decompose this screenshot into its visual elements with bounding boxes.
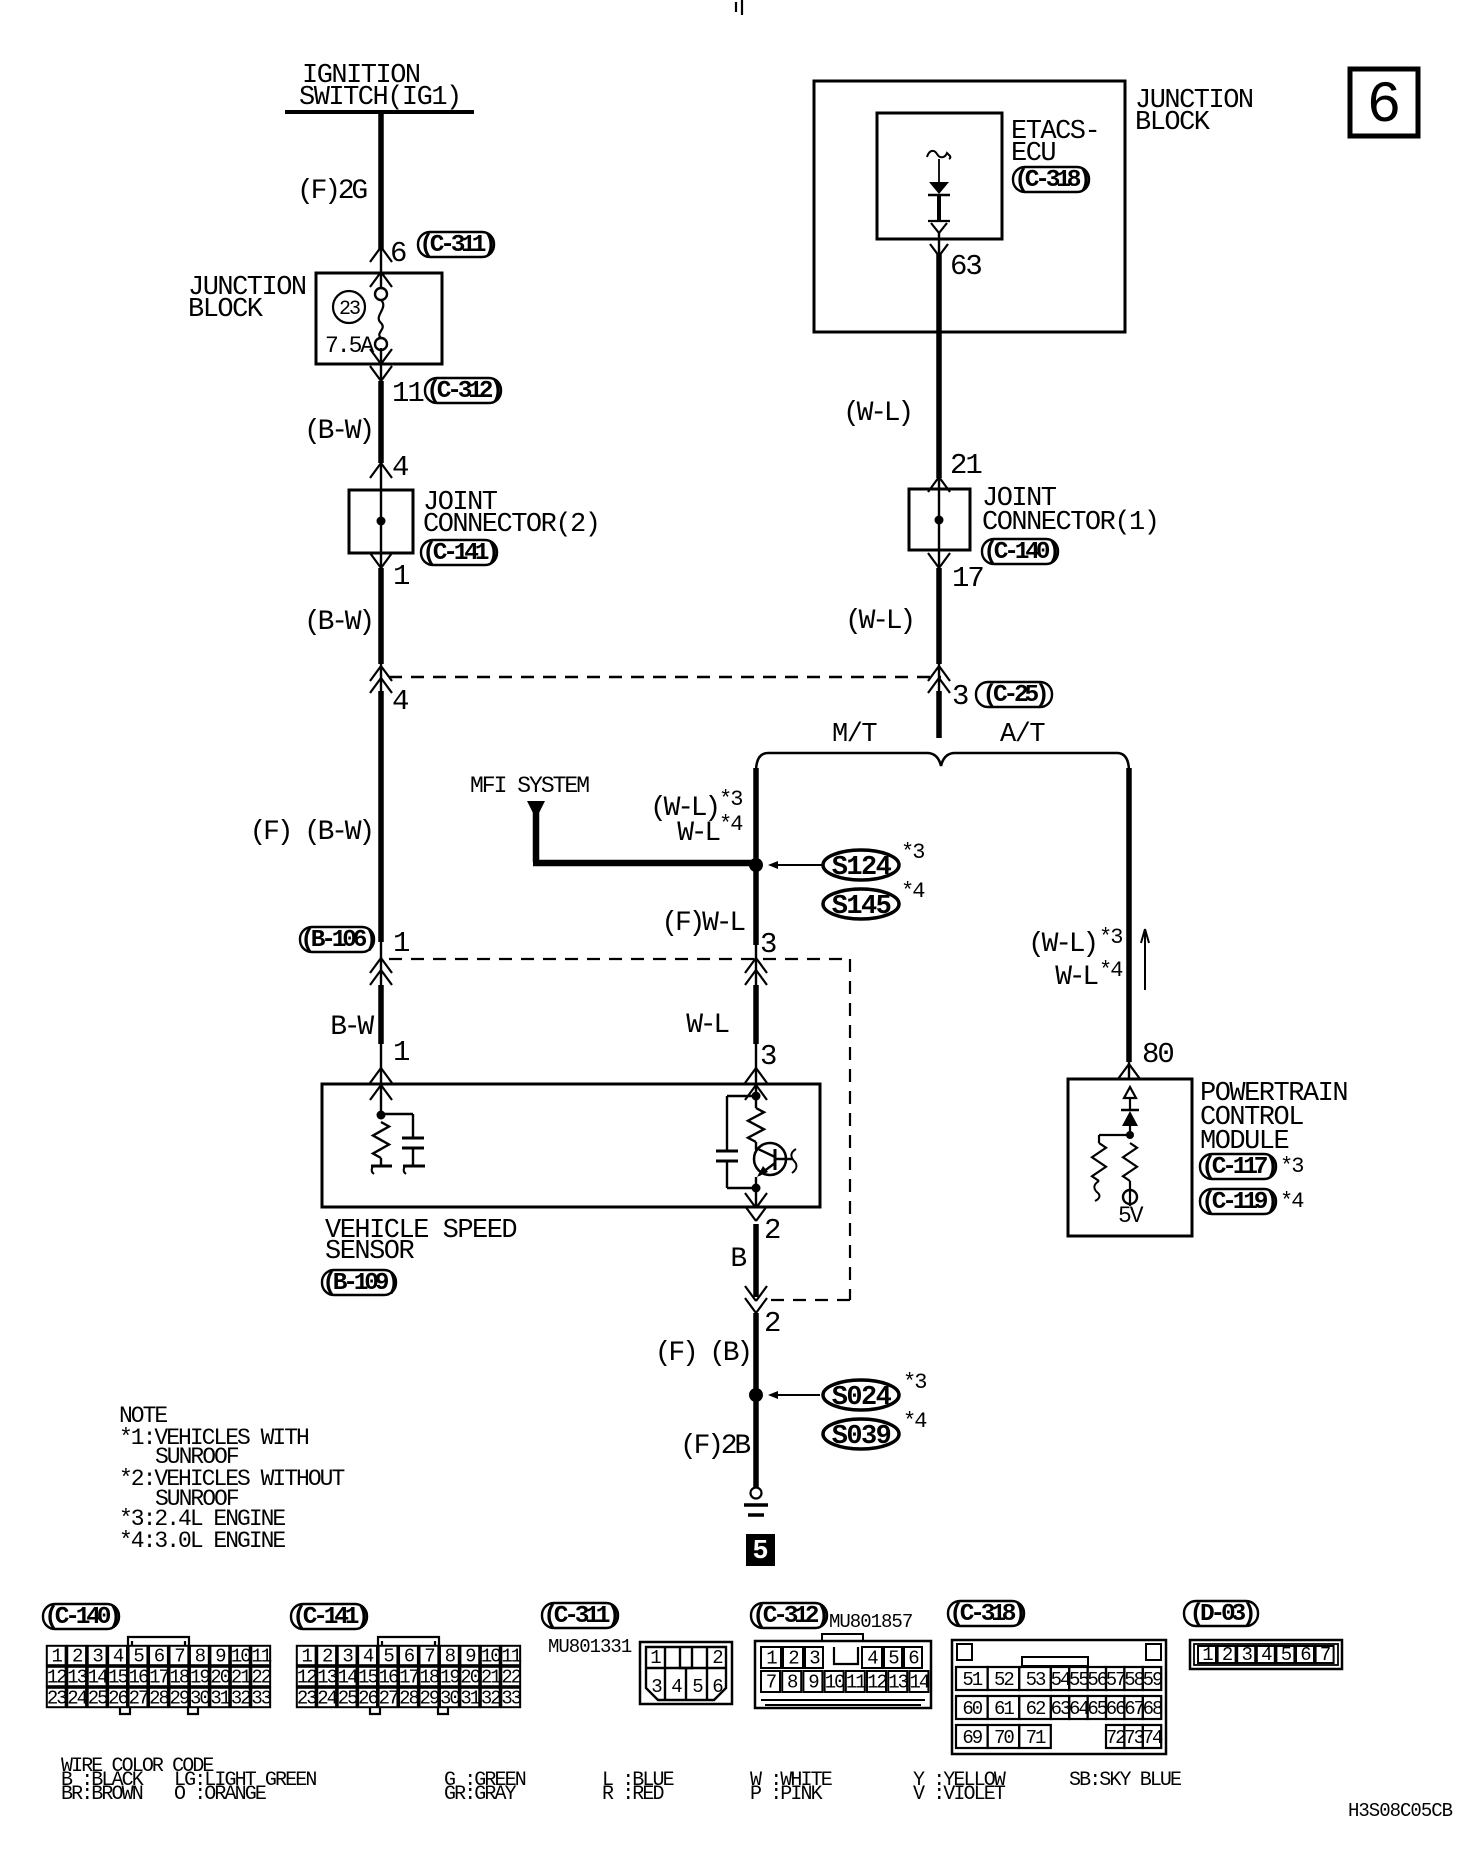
svg-text:25: 25 xyxy=(338,1687,358,1709)
svg-text:P :PINK: P :PINK xyxy=(750,1783,823,1806)
svg-text:7: 7 xyxy=(766,1672,776,1694)
svg-text:63: 63 xyxy=(1051,1698,1071,1720)
svg-text:14: 14 xyxy=(88,1666,108,1688)
svg-text:SENSOR: SENSOR xyxy=(325,1237,415,1267)
svg-text:21: 21 xyxy=(481,1666,501,1688)
svg-text:26: 26 xyxy=(108,1687,128,1709)
svg-text:68: 68 xyxy=(1143,1698,1163,1720)
svg-text:11: 11 xyxy=(501,1645,521,1667)
svg-text:52: 52 xyxy=(994,1669,1014,1691)
svg-text:24: 24 xyxy=(317,1687,337,1709)
svg-text:4: 4 xyxy=(392,685,408,718)
svg-text:10: 10 xyxy=(481,1645,501,1667)
svg-text:2: 2 xyxy=(788,1648,799,1670)
svg-text:(C-117): (C-117) xyxy=(1201,1154,1275,1181)
svg-text:3: 3 xyxy=(651,1676,662,1698)
svg-text:H3S08C05CB: H3S08C05CB xyxy=(1348,1800,1453,1822)
svg-text:W-L: W-L xyxy=(1055,962,1098,993)
svg-text:28: 28 xyxy=(399,1687,419,1709)
svg-text:4: 4 xyxy=(392,451,408,484)
svg-text:(C-312): (C-312) xyxy=(426,378,500,405)
svg-text:64: 64 xyxy=(1069,1698,1089,1720)
svg-text:(C-140): (C-140) xyxy=(44,1604,118,1631)
svg-text:33: 33 xyxy=(251,1687,271,1709)
svg-text:V :VIOLET: V :VIOLET xyxy=(913,1783,1006,1806)
svg-text:(B-106): (B-106) xyxy=(300,927,374,954)
svg-text:11: 11 xyxy=(846,1672,866,1694)
svg-text:(C-119): (C-119) xyxy=(1201,1189,1275,1216)
svg-text:53: 53 xyxy=(1026,1669,1046,1691)
svg-text:26: 26 xyxy=(358,1687,378,1709)
svg-text:3: 3 xyxy=(809,1648,820,1670)
svg-text:80: 80 xyxy=(1142,1038,1173,1071)
svg-text:(W-L): (W-L) xyxy=(843,398,911,429)
svg-text:5: 5 xyxy=(1281,1644,1292,1666)
svg-text:12: 12 xyxy=(297,1666,317,1688)
svg-text:17: 17 xyxy=(399,1666,418,1688)
svg-text:65: 65 xyxy=(1087,1698,1107,1720)
svg-text:1: 1 xyxy=(302,1645,313,1667)
svg-text:23: 23 xyxy=(47,1687,67,1709)
svg-text:(W-L): (W-L) xyxy=(1028,929,1096,960)
svg-text:54: 54 xyxy=(1051,1669,1071,1691)
svg-text:58: 58 xyxy=(1124,1669,1144,1691)
svg-text:*4: *4 xyxy=(719,812,743,837)
svg-text:9: 9 xyxy=(465,1645,476,1667)
svg-text:16: 16 xyxy=(379,1666,399,1688)
svg-text:69: 69 xyxy=(962,1727,982,1749)
svg-text:51: 51 xyxy=(962,1669,982,1691)
svg-text:2: 2 xyxy=(72,1645,83,1667)
svg-text:3: 3 xyxy=(760,928,776,961)
svg-text:*3: *3 xyxy=(1099,925,1122,950)
svg-text:10: 10 xyxy=(825,1672,845,1694)
svg-text:74: 74 xyxy=(1143,1727,1163,1749)
svg-text:(F) (B-W): (F) (B-W) xyxy=(250,817,372,848)
svg-text:ECU: ECU xyxy=(1011,139,1055,169)
svg-text:(C-25): (C-25) xyxy=(982,682,1046,709)
svg-text:6: 6 xyxy=(1300,1644,1311,1666)
svg-text:4: 4 xyxy=(867,1648,878,1670)
svg-text:(C-311): (C-311) xyxy=(543,1603,617,1630)
svg-text:2: 2 xyxy=(764,1307,780,1340)
svg-text:1: 1 xyxy=(52,1645,63,1667)
svg-text:22: 22 xyxy=(251,1666,271,1688)
svg-text:3: 3 xyxy=(952,680,968,713)
svg-text:(B-109): (B-109) xyxy=(322,1270,396,1297)
svg-text:23: 23 xyxy=(297,1687,317,1709)
svg-text:18: 18 xyxy=(170,1666,190,1688)
svg-text:(C-141): (C-141) xyxy=(422,540,496,567)
svg-text:(C-141): (C-141) xyxy=(292,1604,366,1631)
svg-text:27: 27 xyxy=(129,1687,148,1709)
svg-text:MU801331: MU801331 xyxy=(548,1636,632,1658)
svg-text:B: B xyxy=(730,1244,746,1275)
svg-text:BLOCK: BLOCK xyxy=(188,295,264,325)
svg-text:15: 15 xyxy=(108,1666,128,1688)
svg-text:6: 6 xyxy=(908,1648,919,1670)
svg-text:56: 56 xyxy=(1087,1669,1107,1691)
svg-text:R :RED: R :RED xyxy=(602,1783,664,1806)
svg-text:2: 2 xyxy=(322,1645,333,1667)
svg-text:24: 24 xyxy=(67,1687,87,1709)
svg-text:M/T: M/T xyxy=(832,720,877,750)
svg-text:1: 1 xyxy=(1202,1644,1213,1666)
svg-text:18: 18 xyxy=(420,1666,440,1688)
svg-text:66: 66 xyxy=(1106,1698,1126,1720)
svg-text:O :ORANGE: O :ORANGE xyxy=(174,1783,266,1806)
svg-text:4: 4 xyxy=(363,1645,374,1667)
svg-text:32: 32 xyxy=(231,1687,251,1709)
svg-text:6: 6 xyxy=(390,237,406,270)
svg-text:1: 1 xyxy=(393,927,409,960)
svg-text:19: 19 xyxy=(440,1666,460,1688)
svg-text:29: 29 xyxy=(420,1687,440,1709)
svg-text:5: 5 xyxy=(888,1648,899,1670)
svg-text:1: 1 xyxy=(393,1036,409,1069)
svg-text:5V: 5V xyxy=(1118,1203,1144,1229)
svg-text:62: 62 xyxy=(1026,1698,1046,1720)
svg-text:*4: *4 xyxy=(1280,1189,1304,1214)
svg-text:1: 1 xyxy=(650,1647,661,1669)
svg-text:B-W: B-W xyxy=(330,1012,374,1043)
svg-text:S145: S145 xyxy=(832,892,891,922)
svg-text:CONNECTOR(1): CONNECTOR(1) xyxy=(982,508,1158,538)
svg-text:21: 21 xyxy=(950,449,981,482)
svg-text:(F)W-L: (F)W-L xyxy=(661,908,745,939)
svg-text:4: 4 xyxy=(113,1645,124,1667)
svg-text:(C-318): (C-318) xyxy=(949,1601,1023,1628)
svg-text:3: 3 xyxy=(342,1645,353,1667)
svg-text:2: 2 xyxy=(712,1647,723,1669)
svg-text:12: 12 xyxy=(867,1672,887,1694)
svg-text:BLOCK: BLOCK xyxy=(1135,108,1211,138)
svg-text:12: 12 xyxy=(47,1666,67,1688)
svg-text:SWITCH(IG1): SWITCH(IG1) xyxy=(299,83,461,113)
svg-text:30: 30 xyxy=(440,1687,460,1709)
svg-text:4: 4 xyxy=(671,1676,682,1698)
svg-text:14: 14 xyxy=(909,1672,929,1694)
svg-text:9: 9 xyxy=(215,1645,226,1667)
svg-text:67: 67 xyxy=(1124,1698,1143,1720)
svg-text:*4: *4 xyxy=(901,879,925,904)
svg-text:BR:BROWN: BR:BROWN xyxy=(61,1783,143,1806)
svg-text:W-L: W-L xyxy=(686,1010,729,1041)
svg-text:*3: *3 xyxy=(1280,1154,1303,1179)
svg-text:31: 31 xyxy=(210,1687,230,1709)
svg-text:73: 73 xyxy=(1124,1727,1144,1749)
svg-text:(C-318): (C-318) xyxy=(1014,167,1088,194)
svg-text:CONNECTOR(2): CONNECTOR(2) xyxy=(423,510,599,540)
svg-text:8: 8 xyxy=(445,1645,456,1667)
svg-text:*4: *4 xyxy=(1099,958,1123,983)
svg-text:*3: *3 xyxy=(719,787,742,812)
svg-text:4: 4 xyxy=(1261,1644,1272,1666)
svg-text:59: 59 xyxy=(1143,1669,1163,1691)
svg-text:1: 1 xyxy=(393,560,409,593)
svg-text:*3: *3 xyxy=(901,840,924,865)
svg-text:11: 11 xyxy=(392,377,423,410)
svg-text:30: 30 xyxy=(190,1687,210,1709)
svg-text:5: 5 xyxy=(133,1645,144,1667)
svg-text:8: 8 xyxy=(195,1645,206,1667)
svg-text:22: 22 xyxy=(501,1666,521,1688)
svg-text:(C-312): (C-312) xyxy=(752,1603,826,1630)
svg-text:11: 11 xyxy=(251,1645,271,1667)
svg-text:(B-W): (B-W) xyxy=(304,607,372,638)
svg-text:13: 13 xyxy=(888,1672,908,1694)
svg-text:*3: *3 xyxy=(903,1370,926,1395)
svg-text:(F)2B: (F)2B xyxy=(680,1431,750,1462)
svg-text:15: 15 xyxy=(358,1666,378,1688)
svg-text:21: 21 xyxy=(231,1666,251,1688)
svg-text:6: 6 xyxy=(154,1645,165,1667)
svg-text:13: 13 xyxy=(67,1666,87,1688)
svg-text:6: 6 xyxy=(712,1676,723,1698)
svg-text:29: 29 xyxy=(170,1687,190,1709)
svg-text:8: 8 xyxy=(787,1672,798,1694)
svg-text:2: 2 xyxy=(764,1214,780,1247)
svg-text:(F) (B): (F) (B) xyxy=(655,1338,750,1369)
svg-text:5: 5 xyxy=(692,1676,703,1698)
svg-text:(B-W): (B-W) xyxy=(304,416,372,447)
svg-text:7: 7 xyxy=(1320,1644,1330,1666)
svg-text:31: 31 xyxy=(460,1687,480,1709)
svg-text:17: 17 xyxy=(149,1666,168,1688)
svg-text:(C-311): (C-311) xyxy=(419,232,493,259)
svg-text:14: 14 xyxy=(338,1666,358,1688)
svg-text:W-L: W-L xyxy=(677,818,720,849)
svg-text:SB:SKY BLUE: SB:SKY BLUE xyxy=(1069,1769,1181,1792)
svg-text:5: 5 xyxy=(383,1645,394,1667)
svg-text:A/T: A/T xyxy=(1000,720,1045,750)
svg-text:71: 71 xyxy=(1026,1727,1046,1749)
svg-text:23: 23 xyxy=(339,298,360,321)
svg-text:27: 27 xyxy=(379,1687,398,1709)
svg-text:(F)2G: (F)2G xyxy=(297,176,367,207)
svg-text:60: 60 xyxy=(962,1698,982,1720)
svg-text:63: 63 xyxy=(950,250,981,283)
svg-text:33: 33 xyxy=(501,1687,521,1709)
svg-text:20: 20 xyxy=(460,1666,480,1688)
svg-text:25: 25 xyxy=(88,1687,108,1709)
svg-text:28: 28 xyxy=(149,1687,169,1709)
svg-text:61: 61 xyxy=(994,1698,1014,1720)
svg-text:(D-03): (D-03) xyxy=(1189,1601,1253,1628)
svg-text:16: 16 xyxy=(129,1666,149,1688)
svg-text:(W-L): (W-L) xyxy=(845,606,913,637)
svg-text:GR:GRAY: GR:GRAY xyxy=(444,1783,517,1806)
svg-text:7.5A: 7.5A xyxy=(325,333,374,359)
svg-text:13: 13 xyxy=(317,1666,337,1688)
svg-text:MU801857: MU801857 xyxy=(829,1611,912,1633)
svg-text:72: 72 xyxy=(1106,1727,1126,1749)
svg-text:32: 32 xyxy=(481,1687,501,1709)
svg-text:2: 2 xyxy=(1222,1644,1233,1666)
svg-text:10: 10 xyxy=(231,1645,251,1667)
svg-text:17: 17 xyxy=(952,562,983,595)
svg-text:3: 3 xyxy=(760,1040,776,1073)
svg-text:*4: *4 xyxy=(903,1409,927,1434)
svg-text:MFI SYSTEM: MFI SYSTEM xyxy=(470,773,589,799)
svg-text:(C-140): (C-140) xyxy=(983,539,1057,566)
svg-text:20: 20 xyxy=(210,1666,230,1688)
svg-text:S124: S124 xyxy=(832,853,892,883)
svg-text:9: 9 xyxy=(808,1672,819,1694)
svg-text:7: 7 xyxy=(174,1645,184,1667)
svg-text:5: 5 xyxy=(752,1537,768,1567)
svg-text:19: 19 xyxy=(190,1666,210,1688)
svg-text:*4:3.0L ENGINE: *4:3.0L ENGINE xyxy=(119,1528,285,1554)
svg-text:55: 55 xyxy=(1069,1669,1089,1691)
svg-text:7: 7 xyxy=(424,1645,434,1667)
svg-text:3: 3 xyxy=(1241,1644,1252,1666)
svg-text:3: 3 xyxy=(92,1645,103,1667)
svg-text:S039: S039 xyxy=(832,1422,891,1452)
svg-text:6: 6 xyxy=(1367,74,1402,139)
svg-text:70: 70 xyxy=(994,1727,1014,1749)
svg-text:6: 6 xyxy=(404,1645,415,1667)
svg-text:S024: S024 xyxy=(832,1383,892,1413)
svg-text:57: 57 xyxy=(1106,1669,1125,1691)
svg-text:MODULE: MODULE xyxy=(1200,1127,1289,1157)
svg-text:1: 1 xyxy=(766,1648,777,1670)
